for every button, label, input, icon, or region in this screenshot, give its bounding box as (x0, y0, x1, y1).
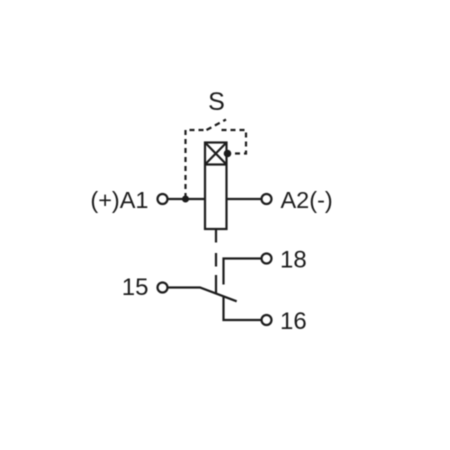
mechanical linkage dashed segment 2 (215, 275, 217, 293)
wire from 15 + moving lever (168, 288, 237, 302)
terminal 18 (262, 254, 272, 264)
svg-text:S: S (208, 88, 225, 116)
svg-text:16: 16 (280, 308, 307, 335)
wire coil to A2 (227, 198, 262, 200)
junction dot on X-box right edge (224, 150, 232, 158)
contact 16 fixed contact (vertical + horizontal wire) (224, 297, 262, 321)
svg-text:A2(-): A2(-) (281, 187, 333, 213)
X-box timing element (divider + diagonals) (205, 143, 227, 165)
terminal 15 (158, 283, 168, 293)
mechanical linkage dashed segment 1 (215, 253, 217, 267)
switch S dashed linkage: top-right horizontal, right vertical, bottom horizontal (222, 130, 247, 154)
terminal 16 (262, 315, 272, 325)
svg-text:(+)A1: (+)A1 (90, 187, 148, 213)
terminal A2 (262, 194, 272, 204)
wire A1 to coil (168, 198, 206, 200)
relay coil K1 body (205, 143, 227, 230)
junction node on A1 wire (182, 196, 189, 203)
switch S blade (angled dashed) (207, 120, 227, 131)
contact 18 fixed contact (L wire) (224, 259, 262, 285)
mechanical linkage stub (solid) below coil (215, 229, 217, 243)
terminal A1 (158, 194, 168, 204)
switch S dashed linkage: left vertical + top-left horizontal (186, 130, 208, 198)
svg-text:15: 15 (122, 274, 149, 301)
svg-text:18: 18 (280, 247, 307, 274)
